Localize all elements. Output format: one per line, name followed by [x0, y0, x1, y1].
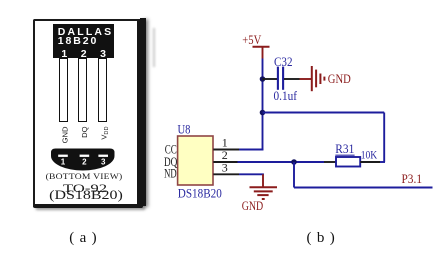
scan fold shadow between panels: [140, 18, 146, 206]
ground bar3: [257, 194, 268, 196]
caption (b): [307, 230, 337, 247]
power bar: [253, 46, 270, 48]
junction P3.1 tee: [291, 159, 297, 165]
caption TO-92: [26, 183, 145, 194]
pin 3 lead: [98, 58, 107, 122]
ground sideways bar1: [311, 66, 313, 91]
wire pin1 to rail: [239, 149, 263, 151]
wire +5V rail vertical: [262, 59, 264, 151]
wire resistor to column: [380, 161, 385, 163]
pin 1 stub: [213, 149, 239, 151]
svg-text:DS18B20: DS18B20: [178, 186, 222, 200]
wire pin2 to resistor: [238, 161, 325, 163]
gnd stem: [262, 174, 264, 187]
pin 3 stub: [213, 173, 239, 175]
wire pin3 to gnd: [239, 173, 264, 175]
ground sideways bar3: [319, 74, 321, 85]
ground bar4: [262, 198, 265, 200]
wire capacitor to gnd black part: [284, 78, 300, 80]
bottom view pad 2: [80, 155, 90, 157]
svg-text:10K: 10K: [361, 147, 378, 161]
bottom view pad 3: [98, 155, 108, 157]
wire capacitor to gnd red part: [300, 78, 312, 80]
caption (a): [69, 230, 99, 247]
ground bar2: [254, 190, 273, 192]
label 18B20: [58, 38, 116, 45]
svg-text:0.1uf: 0.1uf: [274, 89, 298, 103]
svg-text:3: 3: [222, 161, 228, 175]
pin number 1 (front view): [60, 51, 68, 59]
svg-text:+5V: +5V: [242, 32, 261, 47]
svg-text:C32: C32: [274, 55, 293, 69]
pin number 3 (front view): [99, 51, 107, 59]
svg-text:R31: R31: [335, 142, 354, 156]
caption (BOTTOM VIEW): [38, 171, 130, 181]
pin 2 lead: [78, 58, 87, 122]
capacitor C32 plates: [277, 67, 279, 90]
TO-92 package card (panel a): [33, 19, 143, 208]
svg-text:GND: GND: [328, 72, 351, 86]
scan ghost line: [153, 28, 155, 67]
pin number 2 (front view): [80, 51, 88, 59]
junction rail tee: [260, 110, 266, 116]
pin 1 lead: [59, 58, 68, 122]
wire junction to capacitor: [263, 78, 278, 80]
svg-text:GND: GND: [242, 199, 264, 213]
resistor left pin: [324, 161, 336, 163]
TO-92 bottom view body: [51, 149, 115, 171]
power stem: [262, 47, 264, 59]
TO-92 black body front view: [53, 24, 115, 58]
U8 body: [178, 136, 213, 185]
resistor R31 body: [336, 157, 360, 167]
ground bar1: [250, 186, 278, 188]
ground sideways bar4: [323, 77, 325, 81]
wire top rail to resistor column: [263, 112, 385, 114]
wire junction down: [293, 162, 295, 188]
label DALLAS: [58, 29, 116, 36]
bottom view pad 1: [58, 155, 68, 157]
svg-text:P3.1: P3.1: [402, 172, 423, 186]
wire resistor column vertical: [383, 113, 385, 163]
resistor right pin: [360, 161, 380, 163]
ground sideways bar2: [315, 70, 317, 88]
caption (DS18B20): [31, 190, 141, 201]
svg-text:U8: U8: [178, 123, 191, 137]
pin 2 stub: [213, 161, 237, 163]
junction cap tee: [260, 76, 266, 82]
label R31 underline: [335, 154, 354, 156]
wire to P3.1: [294, 187, 433, 189]
svg-text:ND: ND: [164, 166, 177, 180]
